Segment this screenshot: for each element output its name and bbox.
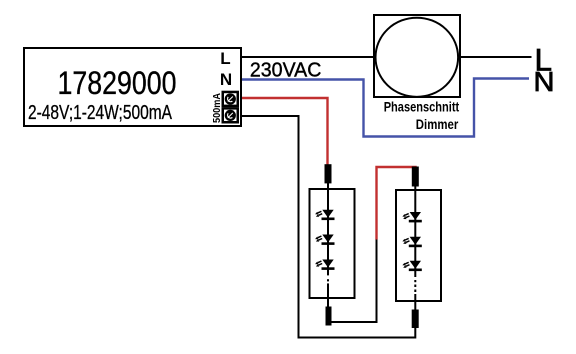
svg-text:17829000: 17829000 [58, 65, 177, 101]
svg-text:Dimmer: Dimmer [416, 116, 459, 132]
svg-text:230VAC: 230VAC [250, 59, 322, 81]
svg-text:2-48V;1-24W;500mA: 2-48V;1-24W;500mA [28, 102, 173, 124]
svg-text:N: N [534, 66, 555, 97]
svg-text:N: N [220, 70, 232, 89]
svg-text:L: L [220, 49, 230, 68]
svg-text:500mA: 500mA [212, 93, 223, 123]
svg-text:Phasenschnitt: Phasenschnitt [384, 99, 460, 115]
